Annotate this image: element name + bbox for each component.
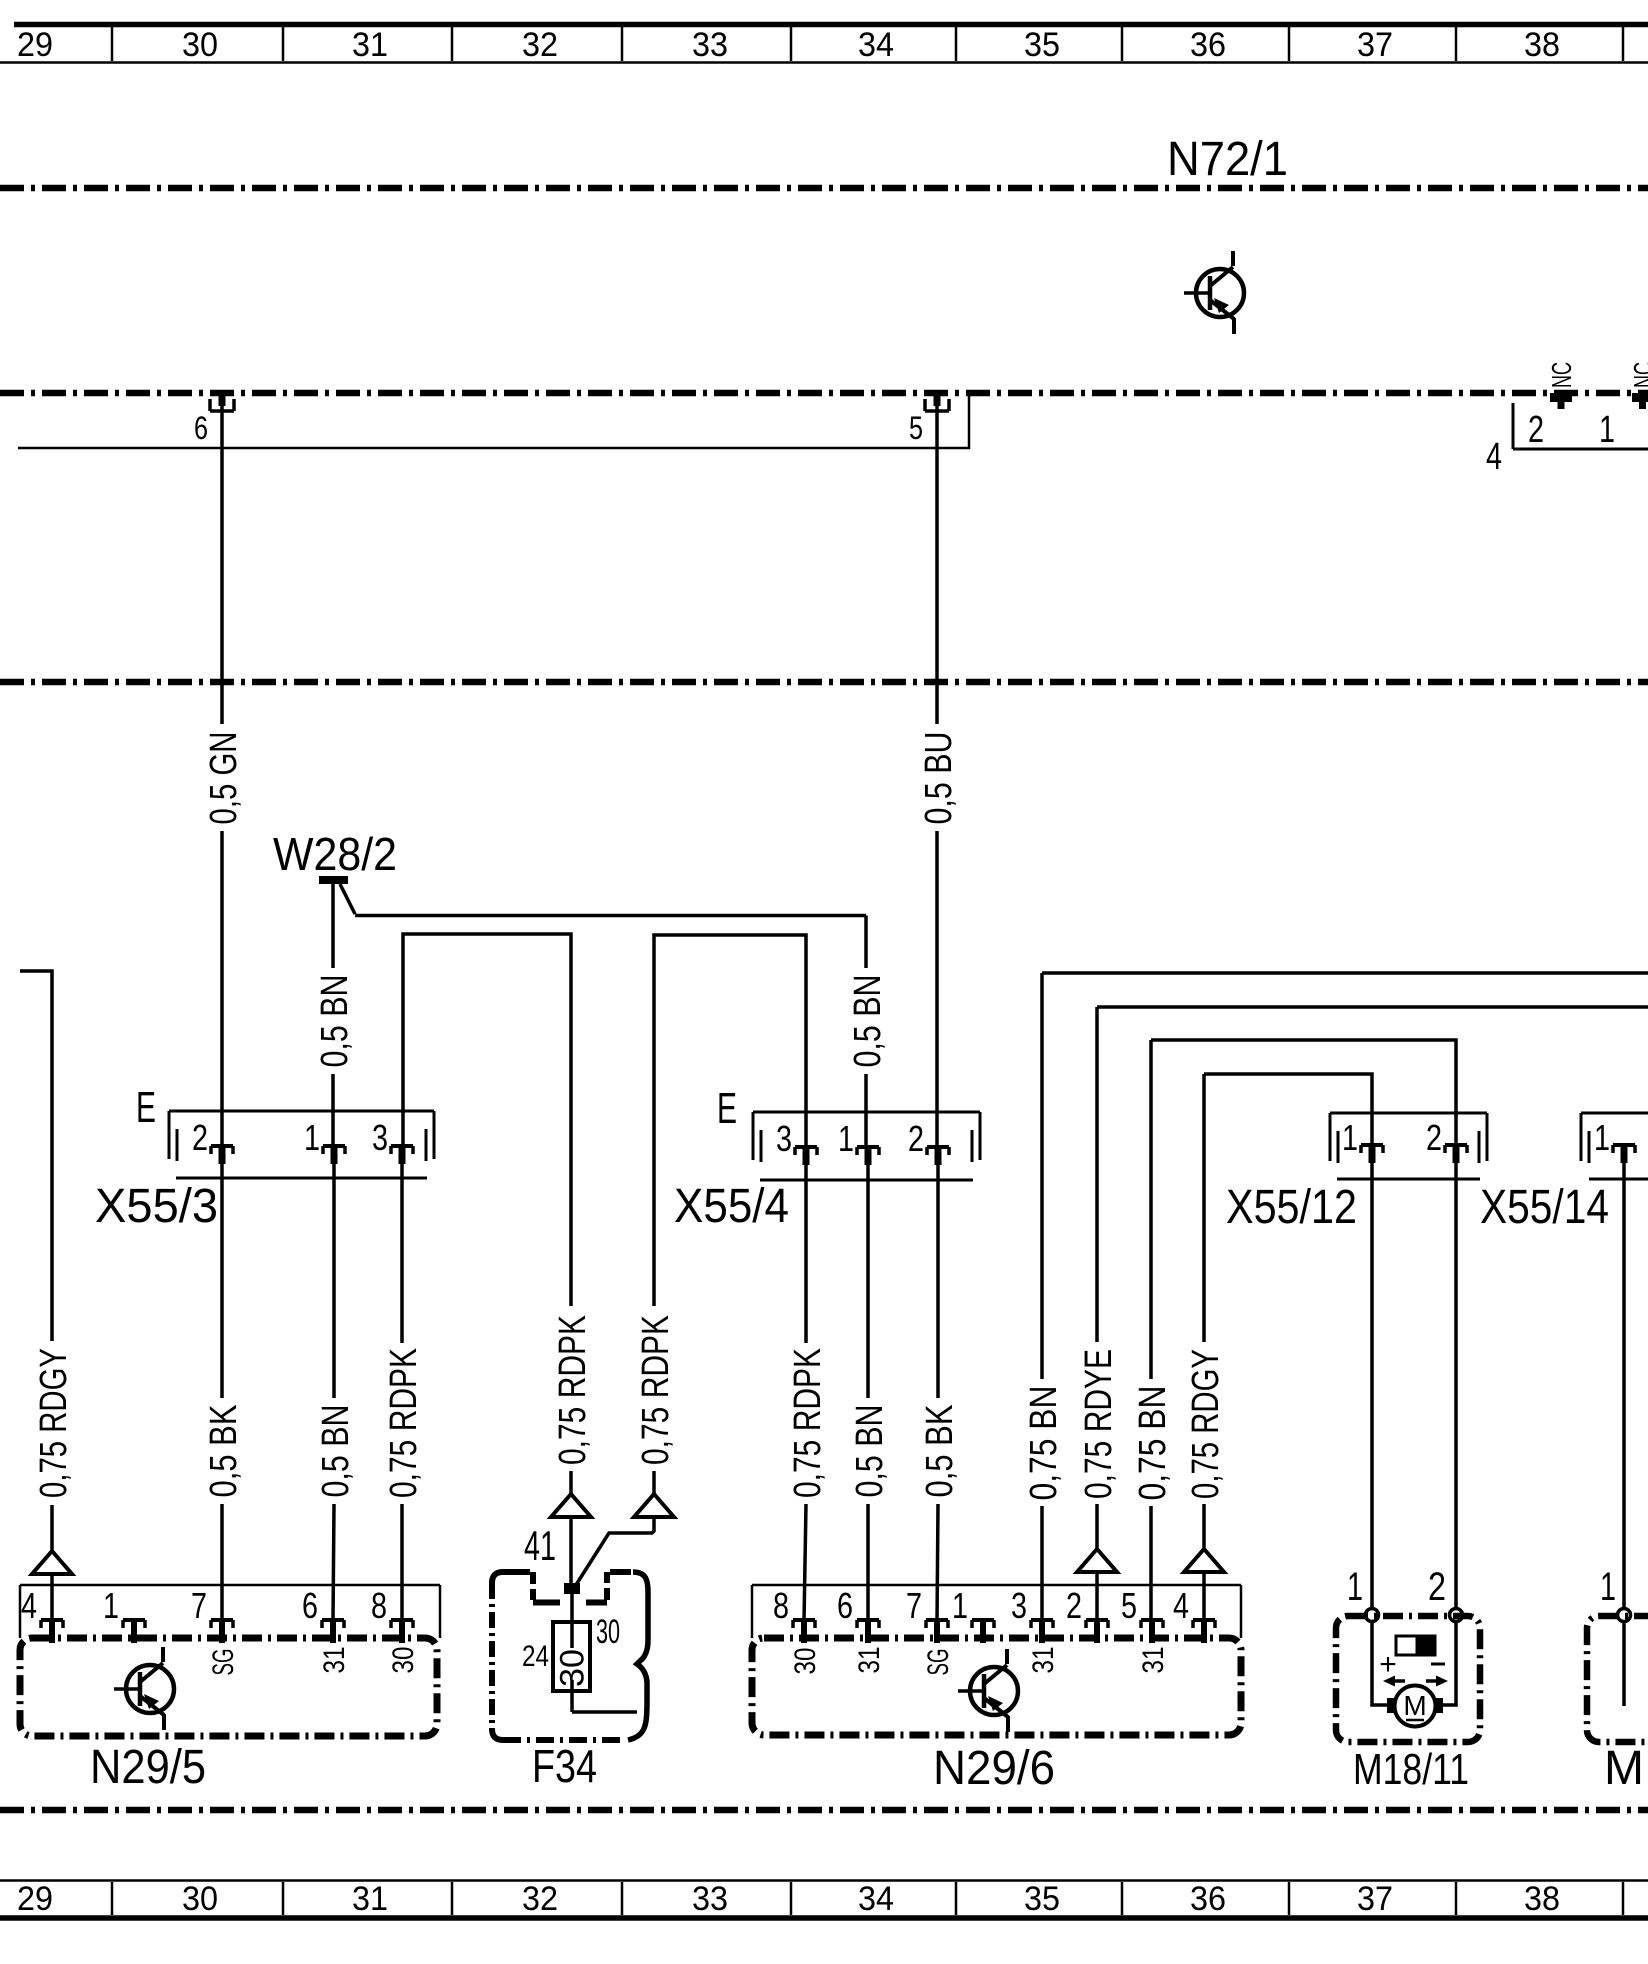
svg-text:6: 6 bbox=[194, 410, 208, 446]
svg-text:29: 29 bbox=[17, 1880, 53, 1918]
svg-text:1: 1 bbox=[103, 1585, 119, 1626]
svg-text:0,5 BK: 0,5 BK bbox=[203, 1405, 245, 1498]
svg-text:31: 31 bbox=[352, 1880, 388, 1918]
svg-text:24: 24 bbox=[522, 1640, 549, 1673]
svg-text:1: 1 bbox=[304, 1117, 320, 1158]
svg-text:0,75 RDPK: 0,75 RDPK bbox=[787, 1348, 829, 1498]
svg-text:F34: F34 bbox=[532, 1740, 597, 1792]
svg-text:36: 36 bbox=[1190, 1880, 1226, 1918]
svg-text:0,75 BN: 0,75 BN bbox=[1132, 1386, 1174, 1501]
svg-text:30: 30 bbox=[789, 1648, 822, 1675]
svg-text:5: 5 bbox=[1121, 1585, 1137, 1626]
svg-text:M: M bbox=[1403, 1690, 1426, 1721]
svg-text:0,75 RDYE: 0,75 RDYE bbox=[1078, 1349, 1120, 1499]
svg-text:N72/1: N72/1 bbox=[1167, 133, 1288, 186]
svg-text:33: 33 bbox=[692, 26, 728, 64]
svg-text:SG: SG bbox=[207, 1649, 240, 1676]
svg-text:E: E bbox=[717, 1084, 737, 1133]
svg-text:29: 29 bbox=[17, 26, 53, 64]
svg-text:X55/14: X55/14 bbox=[1480, 1181, 1609, 1234]
svg-text:34: 34 bbox=[858, 1880, 894, 1918]
svg-text:0,5 BN: 0,5 BN bbox=[849, 1405, 891, 1498]
svg-text:1: 1 bbox=[1342, 1117, 1358, 1158]
svg-text:4: 4 bbox=[1486, 436, 1502, 478]
svg-text:5: 5 bbox=[909, 410, 923, 446]
svg-text:7: 7 bbox=[906, 1585, 922, 1626]
svg-text:31: 31 bbox=[318, 1647, 351, 1674]
svg-text:0,5 GN: 0,5 GN bbox=[203, 732, 245, 825]
svg-text:30: 30 bbox=[553, 1649, 591, 1687]
svg-text:0,5 BN: 0,5 BN bbox=[315, 1405, 357, 1498]
svg-text:31: 31 bbox=[1137, 1647, 1170, 1674]
svg-text:X55/4: X55/4 bbox=[674, 1180, 789, 1233]
svg-text:37: 37 bbox=[1357, 1880, 1393, 1918]
svg-text:3: 3 bbox=[776, 1118, 792, 1159]
svg-text:2: 2 bbox=[1426, 1117, 1442, 1158]
svg-text:1: 1 bbox=[1599, 409, 1615, 451]
svg-text:M: M bbox=[1604, 1742, 1644, 1795]
svg-text:0,75 RDPK: 0,75 RDPK bbox=[552, 1315, 594, 1465]
svg-text:0,75 RDGY: 0,75 RDGY bbox=[33, 1348, 75, 1498]
svg-text:3: 3 bbox=[1011, 1585, 1027, 1626]
svg-text:32: 32 bbox=[522, 1880, 558, 1918]
svg-text:31: 31 bbox=[1027, 1647, 1060, 1674]
svg-text:X55/3: X55/3 bbox=[95, 1180, 218, 1233]
svg-text:0,5 BN: 0,5 BN bbox=[847, 975, 889, 1068]
svg-text:2: 2 bbox=[192, 1117, 208, 1158]
svg-text:8: 8 bbox=[773, 1585, 789, 1626]
svg-text:2: 2 bbox=[908, 1118, 924, 1159]
svg-text:NC: NC bbox=[1546, 362, 1577, 388]
svg-text:32: 32 bbox=[522, 26, 558, 64]
svg-text:M18/11: M18/11 bbox=[1353, 1745, 1469, 1794]
svg-text:1: 1 bbox=[1347, 1565, 1363, 1609]
svg-text:31: 31 bbox=[352, 26, 388, 64]
svg-text:0,5 BN: 0,5 BN bbox=[314, 975, 356, 1068]
svg-text:2: 2 bbox=[1528, 409, 1544, 451]
svg-text:0,5 BK: 0,5 BK bbox=[919, 1405, 961, 1498]
svg-text:E: E bbox=[136, 1083, 156, 1132]
svg-text:0,75 BN: 0,75 BN bbox=[1023, 1386, 1065, 1501]
svg-text:35: 35 bbox=[1024, 26, 1060, 64]
svg-text:1: 1 bbox=[838, 1118, 854, 1159]
svg-text:37: 37 bbox=[1357, 26, 1393, 64]
svg-text:0,75 RDPK: 0,75 RDPK bbox=[635, 1315, 677, 1465]
svg-text:2: 2 bbox=[1066, 1585, 1082, 1626]
svg-text:30: 30 bbox=[596, 1613, 620, 1651]
svg-text:30: 30 bbox=[182, 26, 218, 64]
svg-text:36: 36 bbox=[1190, 26, 1226, 64]
svg-text:0,75 RDPK: 0,75 RDPK bbox=[383, 1348, 425, 1498]
svg-text:0,75 RDGY: 0,75 RDGY bbox=[1185, 1349, 1227, 1499]
svg-text:N29/5: N29/5 bbox=[90, 1741, 206, 1794]
svg-text:6: 6 bbox=[302, 1585, 318, 1626]
svg-text:1: 1 bbox=[952, 1585, 968, 1626]
svg-text:N29/6: N29/6 bbox=[933, 1742, 1055, 1795]
svg-text:34: 34 bbox=[858, 26, 894, 64]
svg-text:31: 31 bbox=[853, 1647, 886, 1674]
svg-text:30: 30 bbox=[387, 1647, 420, 1674]
svg-text:41: 41 bbox=[524, 1522, 556, 1569]
svg-text:35: 35 bbox=[1024, 1880, 1060, 1918]
svg-text:W28/2: W28/2 bbox=[273, 828, 397, 880]
svg-text:4: 4 bbox=[1173, 1585, 1189, 1626]
svg-text:8: 8 bbox=[371, 1585, 387, 1626]
svg-text:33: 33 bbox=[692, 1880, 728, 1918]
svg-text:1: 1 bbox=[1600, 1565, 1616, 1609]
svg-text:2: 2 bbox=[1428, 1565, 1446, 1609]
svg-text:38: 38 bbox=[1524, 1880, 1560, 1918]
svg-text:30: 30 bbox=[182, 1880, 218, 1918]
svg-text:SG: SG bbox=[922, 1649, 955, 1676]
svg-text:6: 6 bbox=[837, 1585, 853, 1626]
svg-text:1: 1 bbox=[1594, 1117, 1610, 1158]
svg-text:4: 4 bbox=[21, 1585, 37, 1626]
svg-text:7: 7 bbox=[191, 1585, 207, 1626]
svg-text:X55/12: X55/12 bbox=[1226, 1181, 1357, 1234]
svg-text:38: 38 bbox=[1524, 26, 1560, 64]
svg-text:0,5 BU: 0,5 BU bbox=[918, 732, 960, 825]
svg-text:NC: NC bbox=[1628, 362, 1648, 388]
svg-text:3: 3 bbox=[372, 1117, 388, 1158]
